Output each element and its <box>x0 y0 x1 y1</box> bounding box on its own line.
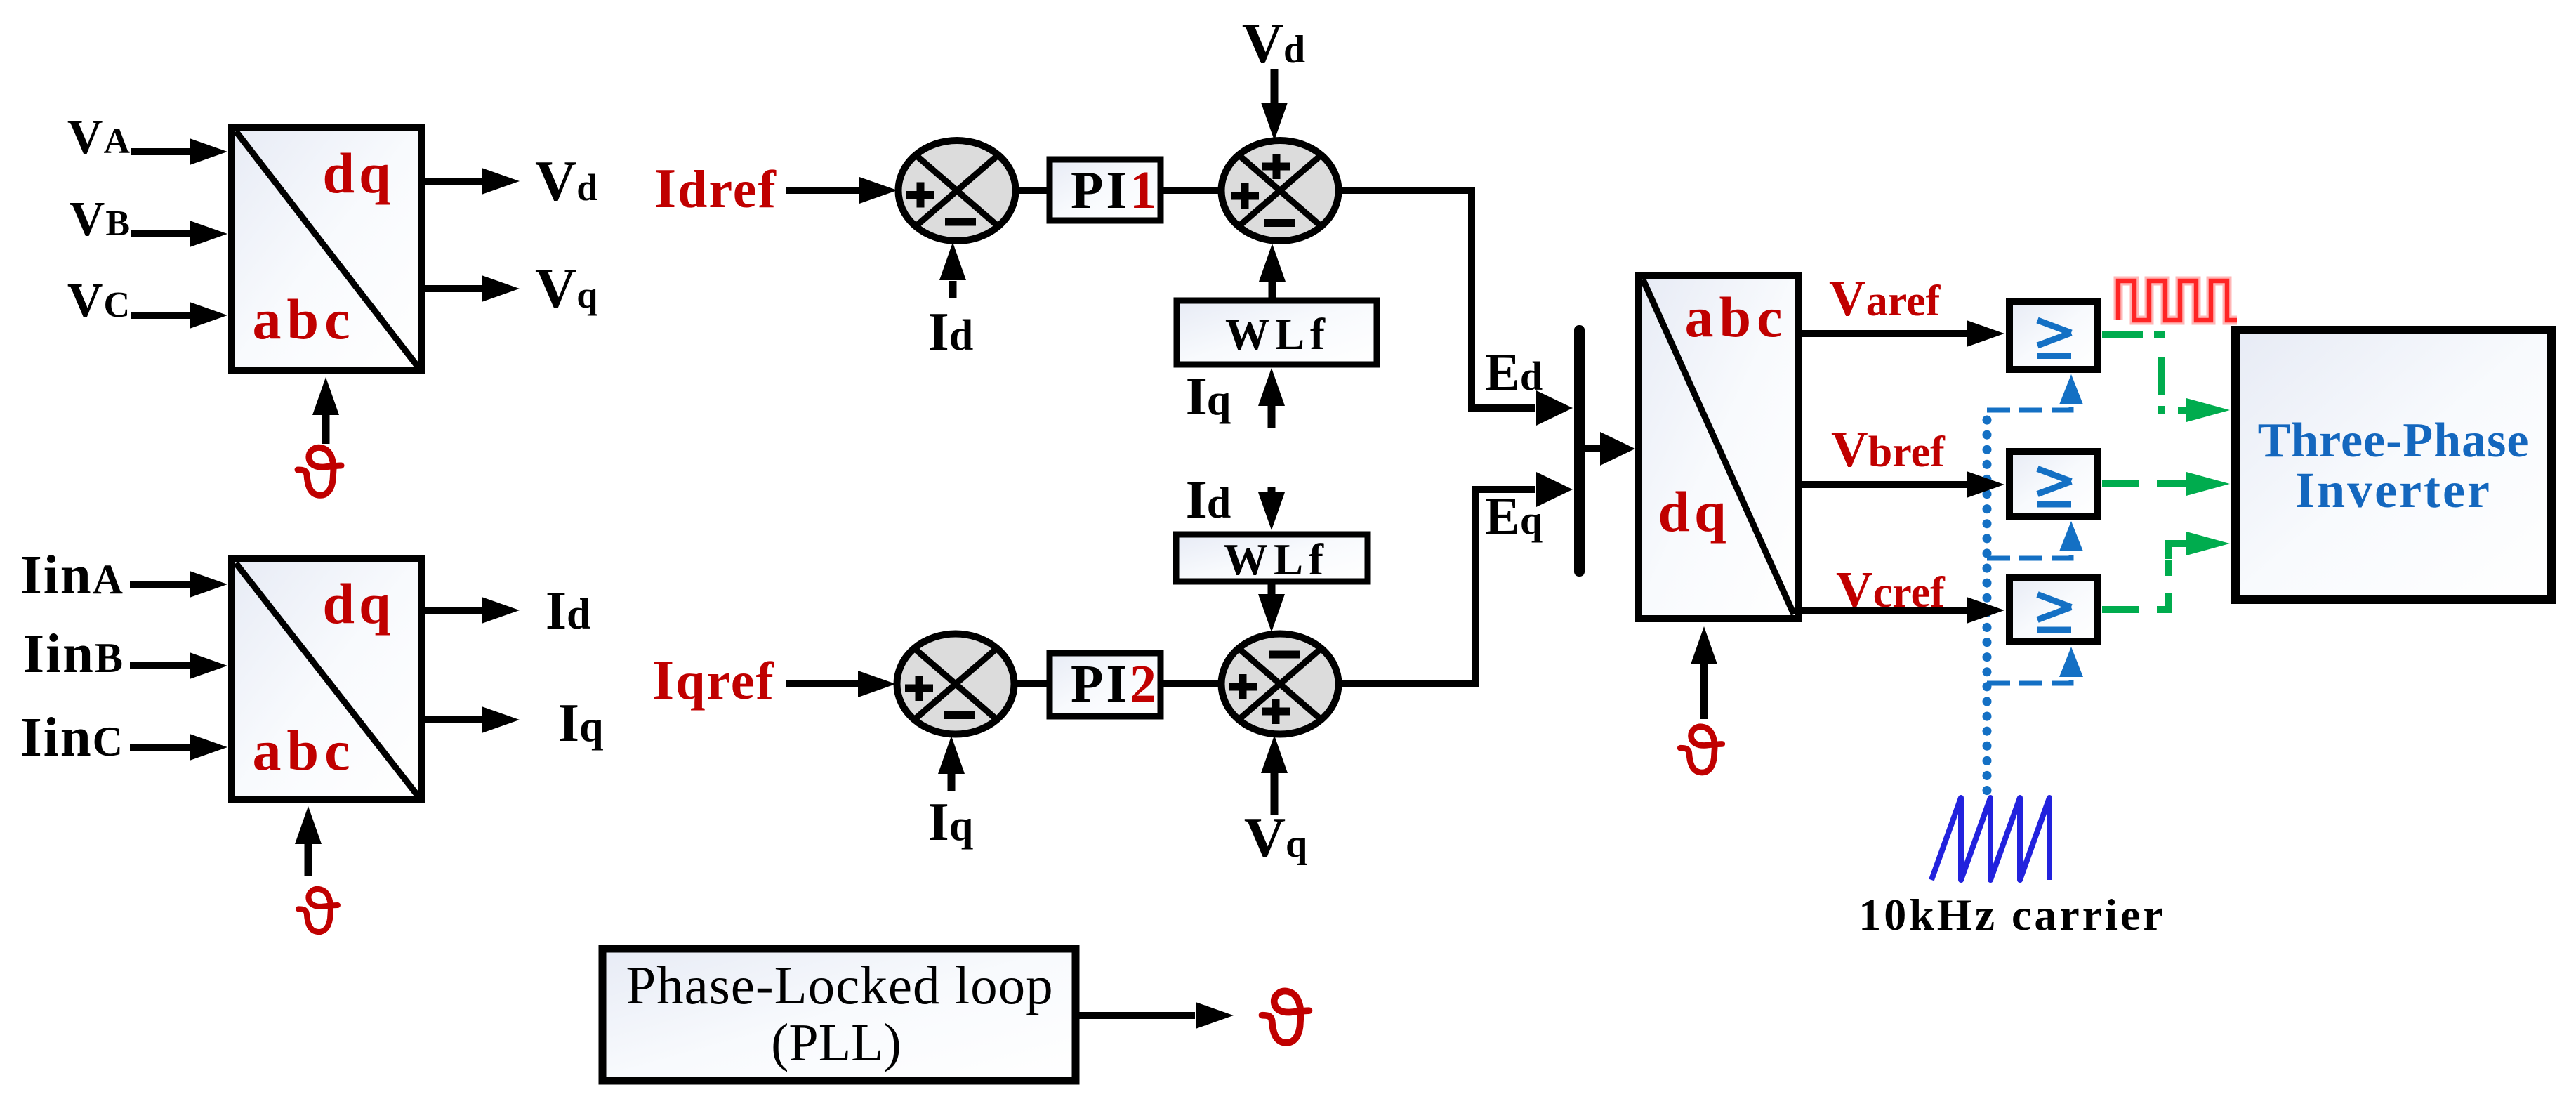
svg-text:PI2: PI2 <box>1071 654 1159 713</box>
svg-text:Three-Phase: Three-Phase <box>2258 414 2530 468</box>
svg-text:abc: abc <box>1685 285 1788 349</box>
svg-text:10kHz carrier: 10kHz carrier <box>1858 890 2166 940</box>
svg-text:(PLL): (PLL) <box>771 1013 901 1072</box>
svg-text:Varef: Varef <box>1829 270 1941 327</box>
svg-text:dq: dq <box>322 141 395 205</box>
svg-text:abc: abc <box>253 718 356 782</box>
svg-text:WLf: WLf <box>1225 310 1330 359</box>
svg-text:Iqref: Iqref <box>652 650 775 711</box>
svg-text:Inverter: Inverter <box>2295 462 2492 518</box>
svg-text:Phase-Locked loop: Phase-Locked loop <box>626 955 1053 1015</box>
svg-text:dq: dq <box>1658 480 1730 544</box>
svg-text:abc: abc <box>253 287 356 351</box>
svg-text:Vbref: Vbref <box>1831 421 1946 478</box>
svg-text:Idref: Idref <box>654 158 777 220</box>
svg-text:PI1: PI1 <box>1071 161 1159 220</box>
svg-text:WLf: WLf <box>1224 535 1329 584</box>
svg-text:Vcref: Vcref <box>1836 561 1946 618</box>
svg-text:dq: dq <box>322 572 395 636</box>
